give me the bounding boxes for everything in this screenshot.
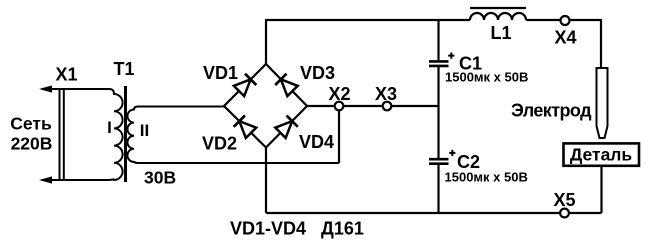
svg-text:VD4: VD4: [299, 132, 334, 152]
svg-text:T1: T1: [113, 59, 134, 79]
svg-text:X3: X3: [375, 84, 397, 104]
svg-text:VD1: VD1: [203, 63, 238, 83]
svg-text:Электрод: Электрод: [511, 101, 592, 121]
svg-text:VD3: VD3: [300, 63, 335, 83]
svg-text:1500мк x 50В: 1500мк x 50В: [445, 70, 528, 85]
svg-text:Деталь: Деталь: [570, 145, 633, 165]
svg-text:VD1-VD4: VD1-VD4: [230, 219, 306, 239]
svg-text:X2: X2: [328, 84, 350, 104]
svg-text:VD2: VD2: [202, 134, 237, 154]
svg-text:30В: 30В: [144, 168, 176, 188]
svg-text:Сеть: Сеть: [10, 114, 52, 134]
svg-text:II: II: [140, 121, 149, 140]
svg-text:L1: L1: [490, 23, 511, 43]
svg-text:Д161: Д161: [321, 219, 364, 239]
svg-text:220В: 220В: [11, 134, 53, 154]
svg-text:X4: X4: [554, 28, 576, 48]
svg-text:I: I: [107, 118, 112, 137]
svg-text:1500мк x 50В: 1500мк x 50В: [445, 170, 528, 185]
svg-text:X1: X1: [55, 65, 77, 85]
svg-text:X5: X5: [553, 190, 575, 210]
